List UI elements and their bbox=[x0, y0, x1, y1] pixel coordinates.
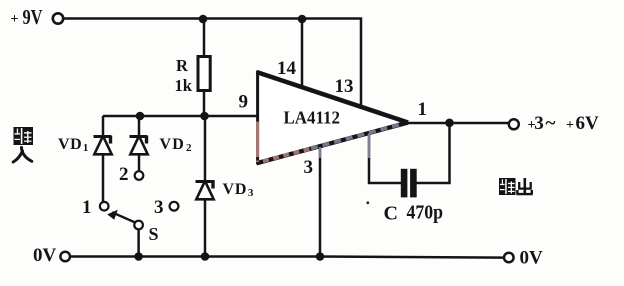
svg-text:1: 1 bbox=[82, 197, 92, 218]
svg-text:1k: 1k bbox=[175, 76, 193, 95]
svg-text:S: S bbox=[149, 224, 159, 244]
svg-text:3: 3 bbox=[304, 157, 314, 178]
svg-text:0V: 0V bbox=[33, 245, 57, 266]
svg-text:C: C bbox=[384, 203, 398, 225]
svg-text:VD1: VD1 bbox=[58, 136, 89, 154]
svg-text:R: R bbox=[176, 56, 189, 75]
svg-text:+3~+6V: +3~+6V bbox=[528, 113, 600, 134]
svg-text:14: 14 bbox=[277, 58, 297, 79]
svg-text:0V: 0V bbox=[520, 248, 544, 269]
svg-text:VD3: VD3 bbox=[223, 181, 255, 199]
svg-text:VD2: VD2 bbox=[160, 136, 193, 154]
svg-text:2: 2 bbox=[119, 164, 129, 185]
svg-text:9: 9 bbox=[239, 92, 249, 113]
svg-text:470p: 470p bbox=[407, 202, 444, 224]
svg-text:+9V: +9V bbox=[11, 5, 43, 29]
svg-text:1: 1 bbox=[418, 99, 428, 120]
svg-text:3: 3 bbox=[154, 197, 164, 218]
svg-text:LA4112: LA4112 bbox=[284, 108, 341, 128]
svg-text:13: 13 bbox=[335, 76, 354, 97]
